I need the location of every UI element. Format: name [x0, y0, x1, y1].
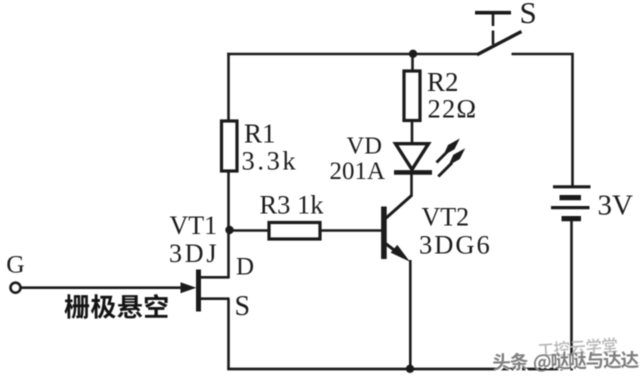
- svg-text:R1: R1: [244, 119, 276, 149]
- svg-text:S: S: [235, 291, 251, 322]
- battery 3V: [551, 187, 591, 219]
- svg-text:3V: 3V: [598, 190, 634, 222]
- svg-text:R3 1k: R3 1k: [260, 190, 325, 220]
- wire R2 to LED anode: [411, 121, 414, 146]
- svg-text:D: D: [236, 254, 254, 281]
- LED light emission arrows: [437, 139, 466, 177]
- node bottom junction: [406, 365, 414, 373]
- resistor R3: [269, 223, 320, 240]
- svg-text:3.3k: 3.3k: [242, 146, 299, 176]
- svg-text:3DG6: 3DG6: [419, 230, 492, 260]
- wire bottom rail: [227, 368, 573, 371]
- svg-text:VT2: VT2: [422, 203, 470, 232]
- svg-text:201A: 201A: [330, 158, 386, 185]
- wire emitter to bottom rail: [409, 260, 412, 369]
- wire R2 top lead: [411, 54, 414, 72]
- wire source to bottom rail: [227, 299, 230, 369]
- resistor R1: [222, 121, 238, 171]
- svg-text:VT1: VT1: [170, 211, 218, 240]
- switch S: [475, 13, 522, 55]
- wire R3 left lead: [230, 229, 270, 232]
- watermark 工控云学堂: [538, 337, 618, 358]
- wire top rail: [227, 53, 478, 56]
- transistor VT1 (JFET): [198, 270, 230, 312]
- svg-text:3DJ: 3DJ: [169, 239, 219, 268]
- svg-text:22Ω: 22Ω: [428, 94, 478, 124]
- LED VD 201A: [394, 144, 432, 173]
- wire R3 right lead: [320, 229, 382, 232]
- terminal G: [11, 283, 21, 293]
- wire battery negative to bottom rail: [570, 221, 573, 370]
- wire LED cathode to collector: [410, 175, 413, 197]
- node top junction: [409, 50, 417, 58]
- transistor VT2 (NPN): [384, 196, 412, 262]
- svg-text:S: S: [520, 0, 537, 30]
- svg-text:VD: VD: [347, 133, 382, 160]
- wire left rail middle: [227, 171, 230, 278]
- wire gate lead with arrow: [21, 282, 197, 293]
- label 栅极悬空 (gate floating): [64, 294, 167, 319]
- node drain junction: [225, 226, 233, 234]
- svg-text:R2: R2: [427, 67, 459, 97]
- wire left rail upper: [227, 53, 230, 122]
- resistor R2: [404, 71, 420, 121]
- svg-text:G: G: [6, 249, 24, 278]
- watermark 头条@哒哒与达达: [493, 351, 640, 375]
- wire switch to battery positive: [512, 54, 573, 187]
